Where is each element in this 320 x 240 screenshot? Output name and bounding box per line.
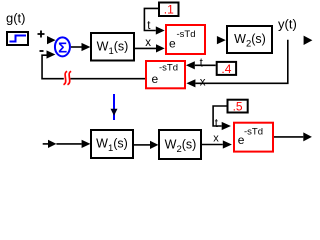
svg-text:x: x <box>200 77 206 89</box>
delay block U3 frame <box>234 123 273 152</box>
svg-text:.5: .5 <box>233 100 243 114</box>
wire parameter .1 to U1 t-input <box>144 8 158 30</box>
svg-text:e: e <box>169 37 176 51</box>
svg-text:Σ: Σ <box>58 39 67 56</box>
svg-text:.4: .4 <box>221 62 231 76</box>
wire W1 bottom to W2 bottom <box>134 144 150 146</box>
delay block U2 label e^-sTd <box>152 62 179 86</box>
W2 input arrowhead <box>217 36 226 44</box>
svg-text:-sTd: -sTd <box>244 126 263 137</box>
svg-text:y(t): y(t) <box>278 16 297 31</box>
wire parameter .5 to U3 t-input <box>213 106 227 126</box>
output arrowhead y(t) <box>304 36 313 45</box>
delay U3 x-input arrowhead <box>223 140 232 148</box>
final output arrowhead <box>303 132 312 141</box>
bottom input arrowhead <box>48 140 56 148</box>
delay U2 x-input arrowhead <box>186 79 195 87</box>
feedback wire from break to minus input riser <box>42 55 64 78</box>
W2 bottom input arrowhead <box>150 141 158 149</box>
W1 bottom input arrowhead <box>82 140 91 148</box>
wire W1 output to delay U1 x-input <box>135 47 156 49</box>
delay block U2 frame <box>146 61 185 88</box>
svg-text:-sTd: -sTd <box>177 29 196 40</box>
block W2 bottom frame <box>159 130 201 159</box>
plus input arrowhead <box>47 36 56 44</box>
delay block U1 label e^-sTd <box>169 29 196 51</box>
loop break mark 2 <box>68 71 72 85</box>
svg-text:.1: .1 <box>164 3 174 17</box>
step waveform <box>10 36 27 42</box>
output wire of bottom diagram <box>274 136 303 138</box>
block W1 bottom frame <box>91 130 133 158</box>
wire W2 bottom to delay U3 x-input <box>202 144 223 146</box>
delay U3 t-input arrowhead <box>222 122 231 130</box>
wire summing junction to W1 <box>71 46 82 48</box>
parameter box .1 frame <box>159 3 179 17</box>
step source block frame <box>7 32 28 45</box>
bottom input stub wire <box>43 143 49 145</box>
W1 input arrowhead <box>82 43 91 51</box>
svg-text:t: t <box>215 118 219 130</box>
delay U1 x-input arrowhead <box>156 44 165 52</box>
svg-text:x: x <box>213 132 219 144</box>
svg-text:x: x <box>145 37 151 49</box>
feedback wire from U2 output to break <box>70 78 145 80</box>
loop break mark 1 <box>64 71 68 85</box>
wire parameter .4 to U2 t-input <box>195 64 216 66</box>
minus sign <box>40 50 44 52</box>
summing junction S1 <box>55 37 70 56</box>
parameter box .4 frame <box>217 62 236 75</box>
delay U2 t-input arrowhead <box>186 61 195 69</box>
transformation arrow (blue) <box>111 94 118 120</box>
svg-text:-sTd: -sTd <box>159 62 178 73</box>
block W1 frame <box>91 33 134 61</box>
svg-text:g(t): g(t) <box>6 11 26 26</box>
feedback tap wire from y(t) down and left <box>195 40 287 84</box>
delay block U1 frame <box>166 25 205 54</box>
plus sign <box>38 31 45 38</box>
block W2 frame <box>227 26 272 53</box>
parameter box .5 frame <box>228 100 248 113</box>
minus input arrowhead <box>47 50 56 58</box>
wire input to W1 bottom <box>56 143 81 145</box>
svg-text:e: e <box>152 72 159 86</box>
svg-text:t: t <box>200 57 204 69</box>
delay U1 t-input arrowhead <box>156 26 165 34</box>
delay block U3 label e^-sTd <box>238 126 263 147</box>
